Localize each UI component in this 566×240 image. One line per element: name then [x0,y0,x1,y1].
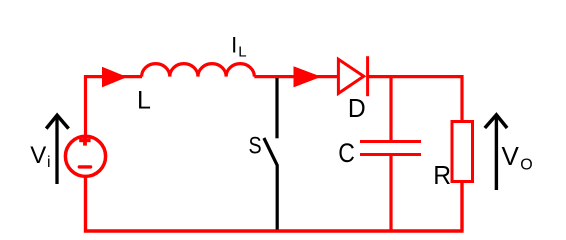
svg-text:V: V [30,142,46,169]
svg-text:L: L [137,87,151,115]
svg-text:O: O [520,156,532,173]
svg-text:D: D [348,95,366,124]
svg-text:C: C [338,138,355,168]
svg-text:V: V [502,141,520,171]
svg-text:I: I [231,32,237,57]
svg-text:S: S [249,132,262,159]
svg-text:i: i [47,154,51,171]
svg-text:R: R [433,161,451,190]
svg-text:L: L [238,44,246,61]
